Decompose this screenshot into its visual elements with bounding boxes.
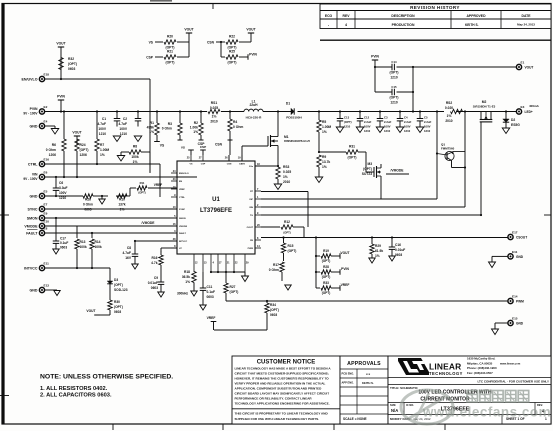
svg-text:0.01uF: 0.01uF [148,281,158,285]
power flag VOUT (R20) [184,28,193,58]
svg-text:PVIN: PVIN [57,95,65,99]
resistor R22 [226,35,251,50]
ground (D2) [502,128,510,134]
op-amp U1 LT3796EFE [171,155,261,272]
svg-text:(OPT): (OPT) [138,191,145,195]
svg-text:1210: 1210 [59,196,66,200]
svg-text:C8: C8 [127,246,131,250]
svg-text:R14: R14 [95,240,101,244]
resistor R13 [75,226,87,268]
svg-text:9V - 100V: 9V - 100V [23,177,38,181]
terminal E9 SMON [27,211,48,220]
svg-text:ECO: ECO [325,14,333,18]
ground (R18) [191,291,198,296]
svg-text:E10: E10 [44,219,50,223]
wire FAULT row [45,232,177,234]
resistor R34 [265,301,279,330]
svg-text:TITLE: SCHEMATIC: TITLE: SCHEMATIC [390,386,419,390]
svg-text:CTRL: CTRL [28,162,38,166]
svg-text:1%: 1% [447,114,452,118]
svg-text:FDMS86101DPB-G0-25: FDMS86101DPB-G0-25 [284,140,311,143]
svg-text:ISN: ISN [249,207,253,209]
svg-text:12: 12 [195,262,198,265]
svg-text:REV: REV [343,14,351,18]
svg-text:(OPT): (OPT) [348,156,357,160]
svg-text:RS2: RS2 [446,101,453,105]
capacitor C2 [119,112,142,136]
svg-text:29: 29 [246,262,249,265]
svg-text:1210: 1210 [424,129,431,133]
svg-text:C6: C6 [59,181,63,185]
svg-text:(OPT): (OPT) [80,148,89,152]
svg-text:100V: 100V [384,125,391,129]
capacitor C1 [98,112,121,136]
svg-text:TECHNOLOGY: TECHNOLOGY [429,371,463,376]
svg-text:IC NO.: IC NO. [406,403,414,407]
svg-text:INTVCC: INTVCC [179,241,188,243]
svg-text:Milpitas, CA 95035: Milpitas, CA 95035 [467,361,493,365]
ground (C16) [389,256,396,261]
svg-text:0603: 0603 [207,295,214,299]
svg-text:1%: 1% [322,165,327,169]
svg-text:PWM: PWM [516,300,524,304]
resistor R3 [162,112,183,141]
svg-text:RT: RT [250,191,254,193]
svg-text:GATE: GATE [239,163,245,166]
svg-text:VOUT: VOUT [86,309,95,313]
resistor R15 [281,238,296,262]
svg-text:TECHNOLOGY APPLICATIONS ENGINE: TECHNOLOGY APPLICATIONS ENGINEERING FOR … [235,402,330,406]
svg-text:1210: 1210 [364,129,371,133]
svg-text:APP ENG.: APP ENG. [342,381,355,385]
svg-text:LINEAR TECHNOLOGY HAS MADE A B: LINEAR TECHNOLOGY HAS MADE A BEST EFFORT… [235,367,332,371]
svg-text:VC: VC [179,248,182,250]
svg-text:R28: R28 [323,265,329,269]
svg-text:R7: R7 [100,143,104,147]
svg-text:VIN: VIN [32,173,38,177]
svg-text:SYNC: SYNC [179,209,185,211]
svg-text:VOUT: VOUT [340,251,349,255]
svg-text:R10: R10 [119,198,125,202]
resistor R16 [151,251,163,282]
svg-text:FAULT: FAULT [179,232,187,235]
svg-text:APPROVALS: APPROVALS [347,361,381,367]
svg-text:17: 17 [219,262,222,265]
resistor R1 [147,112,160,142]
svg-text:M2: M2 [482,100,487,104]
node CSP (R2) [198,142,206,146]
svg-text:0.1uF: 0.1uF [207,290,216,294]
svg-text:20: 20 [257,224,260,227]
capacitor C11 [200,272,215,305]
svg-text:0 Ohm: 0 Ohm [162,126,172,130]
svg-text:U1: U1 [212,197,220,203]
ground (R8) [117,156,125,162]
svg-text:GND: GND [30,288,38,292]
svg-text:REVISION HISTORY: REVISION HISTORY [410,5,460,10]
svg-text:R27: R27 [230,285,236,289]
svg-text:CTRL: CTRL [179,197,185,199]
ground (RS3) [274,184,282,190]
terminal E11 INTVCC [24,261,49,270]
svg-text:C5: C5 [424,116,428,120]
svg-text:R34: R34 [270,303,276,307]
resistor R4 [228,112,244,142]
svg-text:E11: E11 [512,250,518,254]
terminal E18 EN/UVLO [22,72,50,81]
capacitor C13 [337,112,352,129]
svg-text:1%: 1% [375,254,380,258]
capacitor C12 [357,112,372,134]
svg-text:LINEAR: LINEAR [429,362,461,372]
svg-text:1206: 1206 [80,153,88,157]
svg-text:GND: GND [516,322,524,326]
svg-text:R26: R26 [85,198,91,202]
svg-text:PRODUCTION: PRODUCTION [392,23,415,27]
ground (E15) [492,323,499,335]
svg-text:C9: C9 [154,276,158,280]
svg-text:INTVCC: INTVCC [24,266,38,270]
svg-text:C17: C17 [60,237,66,241]
svg-text:SYNC: SYNC [28,207,38,211]
svg-text:4.7uF: 4.7uF [98,122,107,126]
svg-text:VS: VS [190,164,193,166]
revision history table [320,4,551,40]
resistor R25 [226,50,248,65]
ground (C12) [356,127,364,133]
watermark chinese characters [467,391,529,403]
svg-text:E11: E11 [44,261,50,265]
svg-text:13: 13 [204,262,207,265]
svg-text:PWM: PWM [248,248,254,250]
svg-text:RS3: RS3 [283,165,290,169]
watermark url text [422,405,551,420]
svg-text:100V: 100V [119,127,127,131]
ground (C5) [416,127,424,133]
svg-text:E18: E18 [44,72,50,76]
svg-text:OOUT: OOUT [247,227,254,229]
ground (C17) [53,249,60,254]
svg-text:1210: 1210 [404,129,411,133]
ground (R17) [285,285,292,290]
svg-text:RS1: RS1 [211,101,218,105]
wire GND row (E5) [45,188,130,197]
wire CSN branch [207,41,225,58]
power flag VOUT (R32 top) [56,42,65,80]
node CSP flag (IC) [200,145,206,155]
svg-text:PDS5100H: PDS5100H [286,116,302,120]
svg-text:VOUT: VOUT [56,42,65,46]
svg-text:Fax: (408)434-0507: Fax: (408)434-0507 [467,371,493,375]
resistor R10 [117,194,127,212]
svg-text:(OPT): (OPT) [228,61,237,65]
svg-text:13: 13 [173,206,176,209]
resistor R27 [224,272,239,301]
wire C15 lower rail [375,91,414,93]
svg-text:E6: E6 [44,170,48,174]
svg-text:VOUT: VOUT [184,28,193,32]
svg-text:x.x: x.x [366,372,371,376]
svg-text:5: 5 [174,215,176,218]
svg-text:C11: C11 [207,285,213,289]
wire EN/UVLO row [45,1,173,177]
svg-text:C13: C13 [344,116,350,120]
svg-text:CIRCUIT BOARD LAYOUT MAY SIGNI: CIRCUIT BOARD LAYOUT MAY SIGNIFICANTLY A… [235,392,330,396]
resistor R32 [59,57,77,71]
svg-text:DATE: DATE [522,14,532,18]
svg-text:E5: E5 [44,189,48,193]
svg-text:18: 18 [257,163,260,166]
svg-text:May 24, 2013: May 24, 2013 [517,23,535,27]
svg-text:2.2uF: 2.2uF [364,120,372,124]
svg-text:1%: 1% [100,153,105,157]
svg-text:R3: R3 [168,122,172,126]
svg-text:VS: VS [160,144,165,148]
capacitor C5 [417,112,432,134]
terminal E16 CTRL [28,157,49,166]
svg-text:E2: E2 [44,105,48,109]
svg-text:8: 8 [174,245,176,248]
capacitor C14 [390,60,399,80]
svg-text:www.linear.com: www.linear.com [499,361,521,365]
resistor RS1 [208,101,220,124]
svg-text:(OPT): (OPT) [363,167,372,171]
svg-text:R17: R17 [273,263,279,267]
resistor RS3 [276,165,292,184]
svg-text:N/A: N/A [391,408,398,413]
svg-text:VS: VS [181,146,185,150]
svg-text:R11: R11 [140,181,145,185]
terminal E4 GND [30,119,56,128]
svg-text:CSP: CSP [201,164,206,166]
ground (C1) [113,136,121,142]
wire SYNC row [45,208,177,210]
svg-text:ISP: ISP [249,199,253,201]
svg-text:(OPT): (OPT) [322,291,331,295]
svg-text:0.1uF: 0.1uF [60,241,68,245]
svg-text:8: 8 [257,237,259,240]
terminal E15 GND [495,316,524,325]
svg-text:0.020: 0.020 [445,106,453,110]
wire /VMODE (M3) [386,169,409,175]
svg-text:VOUT: VOUT [72,131,81,135]
transistor M2 [473,100,496,215]
svg-text:R22: R22 [229,35,235,39]
svg-text:0603: 0603 [114,310,121,314]
power flag PVIN (input) [57,95,65,112]
svg-text:100V: 100V [364,125,371,129]
svg-text:R4: R4 [233,120,237,124]
capacitor C17 [53,218,69,250]
svg-text:CSN: CSN [207,41,215,45]
resistor R21 [164,50,189,65]
svg-text:22: 22 [235,262,238,265]
terminal E8 FAULT [26,226,47,235]
svg-text:1%: 1% [193,130,198,134]
svg-text:G1a: G1a [249,166,254,168]
terminal E2 PVIN [23,105,47,116]
wire CSN to IC [215,142,230,162]
svg-text:1206: 1206 [49,153,57,157]
svg-text:1.00k: 1.00k [190,125,198,129]
svg-text:GND: GND [516,255,524,259]
svg-text:(OPT): (OPT) [114,305,123,309]
terminal E1 VOUT [516,60,533,69]
svg-text:PCB ENG.: PCB ENG. [342,372,355,376]
svg-text:25: 25 [187,157,190,160]
resistor R18 [177,270,196,296]
svg-text:(OPT): (OPT) [344,120,352,124]
svg-text:100V: 100V [59,191,67,195]
power flag PVIN (R25) [248,53,257,60]
svg-text:C14: C14 [391,60,397,64]
node CSN (R4) [228,139,233,141]
svg-text:3.3uF: 3.3uF [59,186,68,190]
svg-text:PVIN: PVIN [249,53,257,57]
resistor R5 [317,112,332,153]
svg-text:19: 19 [238,157,241,160]
svg-text:FAULT: FAULT [26,231,38,235]
svg-text:LED+: LED+ [525,110,533,114]
customer notice block [232,356,340,424]
svg-text:1210: 1210 [390,76,398,80]
svg-text:14: 14 [257,245,260,248]
svg-text:27: 27 [199,157,202,160]
svg-text:R1: R1 [150,121,154,125]
svg-text:2.2uF: 2.2uF [404,120,412,124]
svg-text:TG: TG [250,215,253,217]
svg-text:CSN: CSN [215,143,223,147]
svg-text:R21: R21 [167,50,173,54]
svg-text:400mA: 400mA [529,104,540,108]
svg-text:EN: EN [179,181,182,183]
svg-text:4.7k: 4.7k [151,261,158,265]
svg-text:R29: R29 [375,244,381,248]
svg-text:E13: E13 [44,283,50,287]
svg-text:61.9k: 61.9k [375,249,383,253]
svg-text:EN/UVLO: EN/UVLO [179,173,189,175]
svg-text:23: 23 [173,178,176,181]
svg-text:(OPT): (OPT) [283,231,290,235]
svg-text:R12: R12 [284,220,290,224]
wire VC pin row [161,248,177,252]
svg-text:R5: R5 [322,120,326,124]
terminal E11a GND [492,250,524,259]
svg-text:SCALE = NONE: SCALE = NONE [343,417,367,421]
svg-text:VS: VS [149,41,154,45]
svg-text:2: 2 [257,204,259,207]
note text [40,374,173,399]
wire M3 source down [380,182,382,199]
wire Q1 base [436,112,438,200]
ground (C9) [158,292,165,297]
wire VIN row [45,176,177,178]
svg-text:36.5k: 36.5k [182,275,190,279]
svg-text:0.025: 0.025 [210,106,218,110]
svg-text:1210: 1210 [390,101,398,105]
wire ISP run [261,198,437,200]
ground (E4) [51,126,59,134]
wire FB ladder riser [315,238,317,289]
svg-text:2010: 2010 [445,119,452,123]
svg-text:C12: C12 [364,116,370,120]
svg-text:SUPPLIED FOR USE WITH LINEAR T: SUPPLIED FOR USE WITH LINEAR TECHNOLOGY … [235,417,320,421]
svg-text:2010: 2010 [283,180,290,184]
resistor R17 [269,262,284,281]
svg-text:D3: D3 [114,278,118,282]
resistor RS2 [445,101,463,123]
svg-text:4: 4 [213,262,215,265]
svg-text:100k: 100k [95,245,102,249]
power flag VOUT (R22) [246,28,255,43]
svg-text:GND: GND [30,124,38,128]
svg-text:CSP: CSP [146,56,154,60]
svg-text:1210: 1210 [344,125,351,129]
wire INTVCC row [45,267,110,269]
ground (C4) [396,127,404,133]
approvals block [340,356,388,424]
svg-text:300kHz: 300kHz [177,292,188,296]
svg-text:13.7k: 13.7k [322,160,330,164]
svg-text:1. ALL RESISTORS 0402.: 1. ALL RESISTORS 0402. [40,386,108,392]
resistor R9 [317,151,331,177]
svg-text:0603: 0603 [68,67,76,71]
svg-text:100V: 100V [404,125,411,129]
svg-text:1630 McCarthy Blvd.: 1630 McCarthy Blvd. [467,357,495,361]
ground (R29) [369,258,376,263]
svg-text:0603: 0603 [60,246,67,250]
svg-text:D2: D2 [511,118,515,122]
svg-text:C16: C16 [395,243,401,247]
svg-text:APPROVED: APPROVED [466,14,486,18]
terminal E3 LED+ [505,104,540,114]
terminal E10 VMODE [24,219,49,228]
svg-text:LTC CONFIDENTIAL - FOR CUSTOME: LTC CONFIDENTIAL - FOR CUSTOMER USE ONLY [477,379,549,383]
svg-text:PVIN: PVIN [371,55,379,59]
svg-text:SOD-123: SOD-123 [114,288,128,292]
wire CSOUT run [261,236,508,238]
svg-text:R33: R33 [323,281,329,285]
svg-text:CSN: CSN [227,164,232,166]
svg-text:Phone: (408)432-1900: Phone: (408)432-1900 [467,366,497,370]
capacitor C15 [390,85,399,105]
transistor Q1 [437,143,465,168]
svg-text:1%: 1% [185,280,190,284]
node VS [154,142,165,148]
svg-text:1%: 1% [149,130,154,134]
svg-text:0 Ohm: 0 Ohm [233,125,243,129]
svg-text:CUSTOMER NOTICE: CUSTOMER NOTICE [257,360,316,366]
svg-text:2010: 2010 [210,120,218,124]
ground (E13) [54,291,61,296]
svg-text:E1: E1 [521,60,525,64]
svg-text:1.00M: 1.00M [322,125,331,129]
svg-text:R32: R32 [68,57,74,61]
svg-text:R24: R24 [80,143,86,147]
svg-text:21: 21 [227,262,230,265]
svg-text:C3: C3 [384,116,388,120]
svg-text:VOUT: VOUT [525,66,534,70]
svg-text:M1: M1 [284,135,289,139]
svg-text:0603: 0603 [270,313,277,317]
resistor R7 [95,112,110,165]
svg-text:E7: E7 [44,202,48,206]
svg-text:HC9-220-R: HC9-220-R [246,116,262,120]
svg-text:137k: 137k [118,202,125,206]
resistor R12 [261,220,304,238]
power flag VREF (row) [207,316,217,330]
svg-text:16V: 16V [125,256,132,260]
